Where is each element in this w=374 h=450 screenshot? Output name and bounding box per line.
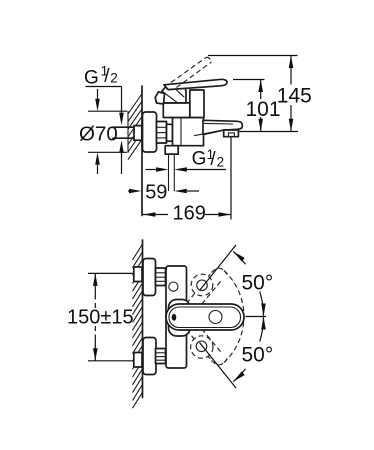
- lower escutcheon (front view): [143, 338, 156, 375]
- dimension 101: [233, 80, 281, 132]
- dimension Ø70: [79, 89, 127, 174]
- svg-text:2: 2: [110, 71, 118, 86]
- shower outlet square (side view): [165, 146, 178, 154]
- svg-text:169: 169: [173, 203, 206, 225]
- screw hole: [169, 282, 178, 291]
- lower dashed circle (rotated lever hole): [191, 336, 213, 358]
- wall back line (side view): [127, 111, 129, 153]
- dashed lowered lever outline (down 50deg): [187, 323, 228, 365]
- lever handle blade (side view): [164, 79, 227, 89]
- svg-text:59: 59: [145, 182, 167, 204]
- svg-text:50°: 50°: [242, 344, 274, 367]
- cartridge collar (side view): [190, 90, 204, 118]
- upper 50deg arc: [260, 292, 264, 317]
- body face line: [180, 118, 182, 146]
- label G 1/2 (shower hose outlet): [146, 147, 227, 172]
- aerator housing: [224, 130, 239, 137]
- dashed raised lever outline (up 50deg): [187, 268, 228, 310]
- lower in-wall fitting square (front view): [134, 353, 142, 368]
- lever hole: [209, 311, 222, 324]
- escutcheon disc (side view): [143, 112, 157, 152]
- lever dome cap (front view): [169, 300, 191, 337]
- svg-text:2: 2: [217, 154, 225, 169]
- svg-text:/: /: [210, 149, 216, 170]
- wall hatching (side view): [128, 94, 142, 160]
- logo slot on lever: [172, 314, 177, 321]
- svg-text:145: 145: [277, 85, 312, 108]
- upper dashed circle (rotated lever hole): [191, 274, 213, 296]
- union nut (side view): [157, 122, 173, 144]
- wall hatching (front view): [133, 244, 143, 408]
- svg-text:150±15: 150±15: [67, 307, 134, 329]
- lower small circle: [196, 341, 207, 352]
- wall surface line (front view): [142, 240, 144, 398]
- big dashed swing arc of lever tip: [224, 271, 244, 363]
- upper in-wall fitting square (front view): [134, 267, 142, 282]
- lever tail (side view): [155, 92, 164, 104]
- lower 50deg boundary line: [200, 343, 237, 389]
- lower union nut (front view): [156, 349, 166, 364]
- centerline of supply axis: [126, 132, 203, 134]
- label G 1/2 (top left, wall connection): [84, 63, 124, 174]
- cartridge dome cap (side view): [162, 85, 186, 103]
- dimension 169: [143, 138, 231, 225]
- upper 50deg boundary line: [200, 245, 237, 291]
- svg-text:50°: 50°: [242, 272, 274, 295]
- supply pipe Ø70 (in-wall): [113, 127, 135, 138]
- upper escutcheon (front view): [143, 259, 156, 296]
- center reference line (front view): [246, 316, 267, 318]
- in-wall fitting square (side view): [134, 126, 142, 141]
- aerator outlet notch: [228, 133, 234, 137]
- raised lever (dashed phantom): [171, 57, 212, 87]
- valve body (side view): [173, 118, 204, 146]
- upper union nut (front view): [156, 268, 166, 286]
- svg-text:101: 101: [246, 98, 281, 121]
- dimension 150±15: [67, 273, 134, 360]
- upper small circle: [197, 280, 208, 291]
- lever handle (front view): [166, 304, 244, 330]
- svg-text:Ø70: Ø70: [79, 123, 118, 146]
- svg-text:G: G: [192, 148, 207, 169]
- dimension 145: [208, 56, 312, 132]
- lower 50deg arc: [260, 317, 264, 342]
- wall surface line (side view): [141, 86, 143, 216]
- spout (side view): [194, 120, 242, 136]
- shower hose pipe lines: [168, 154, 170, 191]
- svg-text:G: G: [84, 67, 99, 88]
- lever inner outline: [169, 307, 241, 328]
- dimension 59: [128, 182, 199, 204]
- faucet body (front view): [166, 266, 187, 368]
